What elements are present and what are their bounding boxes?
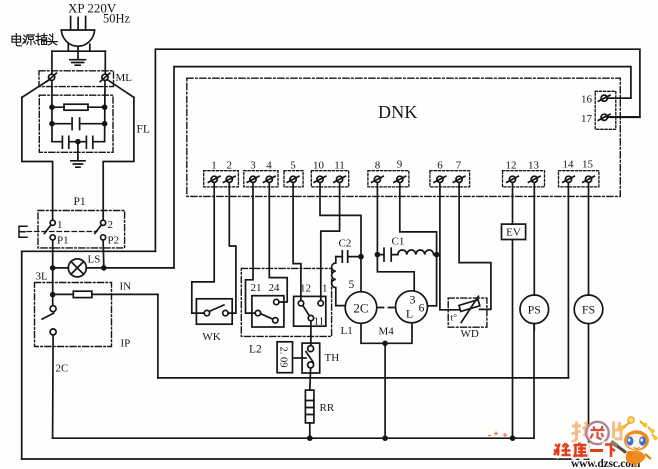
label 11b — [314, 316, 325, 328]
wire relay to TH — [310, 321, 312, 346]
switch WK contacts — [204, 305, 228, 316]
label t13 — [528, 160, 540, 172]
wire terminal2 to WK right — [228, 182, 236, 313]
wire C2 node to motor 2C top — [360, 257, 362, 292]
label 5 — [349, 279, 355, 291]
label t12 — [506, 160, 517, 172]
label 2C wire — [56, 363, 69, 375]
label C1 — [392, 236, 405, 248]
label t9 — [397, 159, 403, 171]
switch P1-2 — [95, 220, 106, 240]
label TH — [325, 352, 340, 364]
watermark text 下 (red) — [605, 445, 618, 458]
wire terminal8 to C1 left and motor 3L — [377, 182, 414, 290]
terminal group dotted box 12-13 — [503, 171, 545, 187]
label LS — [88, 254, 101, 266]
label XP 220V — [68, 1, 117, 16]
resistor RR — [305, 390, 314, 423]
wire IN right down to bus1 — [157, 294, 159, 378]
wire bus 2 — [53, 437, 534, 439]
terminal 8 — [372, 176, 384, 182]
node dot M4 — [382, 341, 388, 347]
wire motor 3L terminal6 stub — [428, 305, 437, 307]
capacitor FL series right — [86, 136, 104, 148]
label IN — [120, 281, 132, 293]
wire outer boot right (ML blade to P1 switch 2) — [103, 97, 134, 220]
wire IP switch down to bus2 — [52, 335, 55, 438]
relay 21-24 contacts — [255, 299, 279, 323]
node dot EV bus2 — [510, 435, 516, 441]
label t2 — [227, 160, 233, 172]
terminal group dotted box 8-9 — [368, 171, 409, 187]
terminal group dotted box 1-2 — [204, 171, 239, 187]
label t4 — [266, 160, 272, 172]
FL dash-dot box — [39, 95, 113, 152]
P1 dash-dot box — [38, 211, 125, 248]
wire terminal10 to C2 right node — [320, 182, 361, 254]
terminal group dotted box 14-15 — [559, 171, 599, 187]
node dot C2 right — [358, 254, 364, 260]
inductor L1 — [332, 257, 346, 306]
wire P2 bottom to LS right node — [102, 240, 105, 266]
label P2 — [108, 235, 120, 247]
label t10 — [313, 160, 325, 172]
thermistor WD box — [448, 298, 487, 327]
flow switch FS — [574, 295, 603, 324]
terminal 6 — [434, 176, 446, 182]
terminal group dotted box 10-11 — [311, 171, 348, 187]
node dot LS left — [50, 265, 56, 271]
label EV — [506, 227, 521, 239]
switch ML right blade — [108, 80, 134, 98]
plug XP: body dome — [61, 30, 94, 51]
wire terminal14 to bus1 — [567, 182, 569, 378]
node dot IN tap — [50, 292, 56, 298]
box 2.09 — [277, 342, 292, 373]
capacitor FL series left — [52, 136, 86, 148]
label P1 — [57, 235, 69, 247]
wire LS right to inner loop — [104, 267, 174, 269]
label C2 — [339, 238, 352, 250]
coupling dashes 2C-3L — [378, 307, 395, 309]
terminal 11 — [334, 176, 346, 182]
terminal 7 — [453, 176, 465, 182]
switch ML left blade — [22, 80, 49, 98]
wire terminal5 to relay L2b contact 12 — [293, 182, 301, 300]
capacitor C1 — [377, 248, 397, 261]
wire terminal6 to WD left — [440, 182, 459, 309]
watermark magnifier with 芯 — [586, 422, 608, 444]
wire terminal17 stub — [607, 116, 640, 118]
wire PS bottom to bus2 end — [533, 324, 535, 330]
watermark white halo under red text — [554, 443, 618, 458]
watermark mascot — [611, 417, 658, 467]
watermark text 库 (red) — [574, 443, 588, 458]
thermostat TH contacts — [306, 346, 314, 368]
label t14 — [563, 159, 575, 171]
plug XP: prongs — [71, 17, 86, 31]
label t1 — [211, 160, 217, 172]
resistor FL — [52, 104, 105, 110]
IP dash-dot box — [35, 283, 112, 347]
wire motor bottoms M4 — [361, 323, 412, 344]
label 21 — [251, 282, 262, 294]
motor 2C — [345, 292, 377, 324]
label 2 — [108, 219, 114, 231]
terminal 3 — [247, 176, 259, 182]
terminal 5 — [287, 176, 299, 182]
capacitor C2 — [336, 251, 361, 262]
label t11 — [334, 160, 345, 172]
node dot FL right 2 — [102, 121, 108, 127]
label WK — [202, 331, 220, 343]
label 24 — [269, 282, 281, 294]
wire plug-right down to ML — [104, 51, 106, 74]
node dot RR bus2 — [307, 435, 313, 441]
wire net17 crossing horizontal — [22, 250, 156, 252]
DNK dash-dot box — [187, 78, 621, 196]
wire bottom bus 3 — [22, 458, 589, 460]
relay 12-1 contacts — [298, 301, 323, 321]
plug XP: shoulder wire — [52, 50, 105, 52]
label t8 — [375, 160, 381, 172]
wire inner loop to terminal 16 — [174, 67, 631, 268]
label t7 — [456, 160, 462, 172]
label t6 — [437, 160, 443, 172]
wire 2.09 to TH — [293, 357, 307, 359]
label L2 — [249, 344, 262, 356]
terminal group dotted box 6-7 — [430, 171, 470, 187]
wire net17 left drop to bottom bus — [21, 251, 23, 459]
label 2.09 rotated — [278, 347, 289, 368]
terminal 17 — [598, 114, 610, 120]
label P1 box title — [74, 196, 86, 208]
wire terminal3 to relay L2a common — [246, 182, 256, 313]
node dot C1 left — [375, 252, 381, 258]
pressure switch PS — [520, 295, 549, 324]
watermark red tick marks — [488, 432, 507, 438]
wire terminal9 to C1 right node — [400, 182, 437, 305]
node dot LS right — [101, 265, 107, 271]
label ML — [116, 72, 133, 84]
node dot FL left 1 — [49, 104, 55, 110]
relay contact box 12-1 — [294, 296, 326, 326]
label M4 — [379, 326, 395, 338]
wire terminal16 stub — [607, 97, 631, 99]
switch ML left contact — [47, 73, 57, 81]
wire FL right vertical — [104, 80, 106, 141]
wire bus2 right end up to PS — [533, 324, 535, 439]
label 50Hz — [103, 12, 131, 26]
wire FL left vertical — [51, 80, 53, 141]
wire terminal13 to PS — [533, 182, 535, 295]
label 1b — [322, 283, 328, 295]
label 3L — [36, 271, 49, 283]
label t3 — [250, 160, 256, 172]
node dot FL center — [75, 139, 81, 145]
terminal 10 — [314, 176, 326, 182]
terminal 13 — [529, 176, 541, 182]
inductor C1 coil — [398, 250, 434, 255]
wire EV to bus2 — [512, 240, 514, 439]
wire bus3 up to FS — [588, 324, 590, 459]
label t deg — [451, 313, 458, 324]
label RR — [320, 402, 335, 414]
wire terminal12 to EV — [512, 182, 514, 224]
label 1 — [57, 219, 63, 231]
motor 3L — [396, 291, 428, 323]
wire terminal4 to relay L2a contact 24 — [269, 182, 287, 302]
ML dash-dot box — [39, 71, 114, 87]
label WD — [461, 328, 479, 340]
wire bus 1 (IN to terminal 14) — [158, 377, 569, 379]
terminal group dotted box 5 — [284, 171, 303, 187]
switch IP — [42, 306, 56, 335]
ground FL — [71, 142, 85, 168]
terminal 1 — [208, 176, 220, 182]
terminal 16 — [598, 95, 610, 101]
terminal 15 — [583, 176, 595, 182]
wire terminal1 to WK — [192, 182, 214, 313]
wire plug-left down to ML — [51, 51, 53, 74]
watermark 片 (orange outline char) — [614, 422, 627, 440]
label t17 — [581, 113, 593, 125]
label t16 — [581, 94, 593, 106]
relay contact box 21-24 — [252, 296, 284, 327]
wire terminal15 to FS — [588, 182, 590, 295]
thermistor WD — [459, 296, 480, 322]
watermark url www.dzsc.com — [571, 458, 641, 469]
switch P1-1 — [44, 220, 55, 240]
label FL — [137, 124, 150, 136]
watermark text 一 (red) — [590, 449, 603, 452]
watermark 找 (orange outline char) — [572, 422, 594, 443]
wire terminal11 to relay L2b contact 1 — [321, 182, 340, 300]
label t15 — [582, 159, 594, 171]
terminal 12 — [507, 176, 519, 182]
label L1 — [341, 325, 353, 337]
gang link dashed line — [27, 231, 97, 233]
node dot M4 bus2 — [382, 435, 388, 441]
label t5 — [290, 160, 296, 172]
switch ML right contact — [100, 73, 110, 81]
valve EV box — [502, 224, 526, 239]
switch WK box — [196, 299, 232, 324]
terminal 14 — [563, 176, 575, 182]
terminal 9 — [394, 176, 406, 182]
label 12 — [300, 283, 311, 295]
capacitor FL upper — [52, 118, 105, 130]
node dot FL right 1 — [102, 104, 108, 110]
wire M4 down to bus2 — [384, 343, 386, 438]
wire TH down to RR — [309, 368, 312, 390]
wire net17 outer loop to terminal 17 — [155, 49, 640, 251]
wire RR to bus2 — [309, 423, 311, 438]
wire LS left node down into IP — [52, 270, 54, 306]
wire outer boot left (ML blade to P1 switch 1) — [22, 97, 53, 220]
node dot FL left 2 — [49, 121, 55, 127]
label IP — [121, 338, 131, 350]
watermark text 维 (red) — [554, 444, 571, 456]
relay L2 dash-dot box — [241, 268, 331, 336]
terminal 2 — [224, 176, 236, 182]
thermostat TH box — [302, 343, 320, 373]
terminal 4 — [264, 176, 276, 182]
terminal group dotted box 3-4 — [244, 171, 278, 187]
label DNK — [378, 102, 418, 122]
resistor IN — [53, 291, 158, 297]
terminal group dotted box 16-17 — [595, 91, 616, 129]
lamp LS — [53, 259, 104, 277]
plug ground symbol — [70, 48, 86, 66]
connector E symbol — [19, 226, 27, 237]
label 电源插头 (power plug, drawn strokes) — [12, 33, 57, 45]
wire terminal7 to WD right — [459, 182, 491, 309]
wire P1 bottom to LS left node — [52, 240, 54, 266]
node dot C1 right — [434, 252, 440, 258]
